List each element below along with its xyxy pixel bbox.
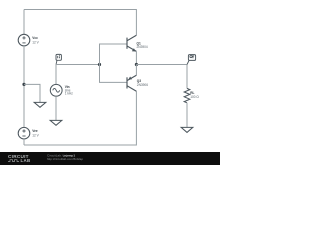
wire Q1 emitter to out node xyxy=(135,51,137,64)
svg-text:1 kHz: 1 kHz xyxy=(65,92,74,96)
wire Vin bottom to ground xyxy=(55,96,57,120)
wire Vin top to bases xyxy=(56,65,100,85)
logo CircuitLab waveform + LAB xyxy=(8,160,19,162)
wire out node to RL xyxy=(136,65,187,89)
svg-text:http://circuitlab.com/5rd2ap: http://circuitlab.com/5rd2ap xyxy=(47,157,83,161)
label RL 100 Ohm xyxy=(190,91,199,99)
voltage source V1 Vcc xyxy=(18,34,30,46)
label Vee 12 V xyxy=(32,129,39,137)
wire base tee xyxy=(100,44,128,82)
wire left rail middle xyxy=(23,46,25,128)
node junction dot left rail xyxy=(22,83,25,86)
svg-text:2N3906: 2N3906 xyxy=(137,83,148,87)
voltage source V2 Vee xyxy=(18,127,30,139)
voltage source Vin sine xyxy=(50,84,62,96)
svg-text:12 V: 12 V xyxy=(32,134,39,138)
wire left rail bottom xyxy=(23,139,25,145)
label Q1 2N3904 xyxy=(137,42,148,50)
label Vcc 12 V xyxy=(32,36,39,44)
node flag out xyxy=(187,55,196,65)
node junction dot bases xyxy=(98,63,101,66)
label Q3 2N3906 xyxy=(137,79,148,87)
wire bottom rail xyxy=(24,91,136,145)
ground G2 xyxy=(50,120,62,125)
node flag in xyxy=(56,54,61,64)
svg-text:Vee: Vee xyxy=(32,129,38,133)
wire top rail Vcc to Q1 collector xyxy=(24,10,136,36)
transistor Q1 2N3904 xyxy=(127,35,136,51)
wire branch to ground xyxy=(24,84,40,102)
resistor RL 100 Ohm xyxy=(184,88,190,102)
node junction dot out xyxy=(135,63,138,66)
footer banner xyxy=(0,152,220,165)
arrow Q3 emitter xyxy=(128,77,132,80)
svg-text:LAB: LAB xyxy=(21,158,31,163)
ground G3 xyxy=(181,127,193,132)
transistor Q3 2N3906 xyxy=(127,75,136,91)
wire left rail top xyxy=(23,10,25,35)
wire RL to ground xyxy=(186,103,188,128)
ground G1 xyxy=(34,102,46,107)
svg-text:100 Ω: 100 Ω xyxy=(190,95,199,99)
arrow Q1 emitter xyxy=(132,48,136,51)
svg-text:12 V: 12 V xyxy=(32,41,39,45)
svg-text:2N3904: 2N3904 xyxy=(137,45,148,49)
label Vin sine 1 kHz xyxy=(65,85,74,96)
wire Q3 emitter xyxy=(135,65,137,76)
